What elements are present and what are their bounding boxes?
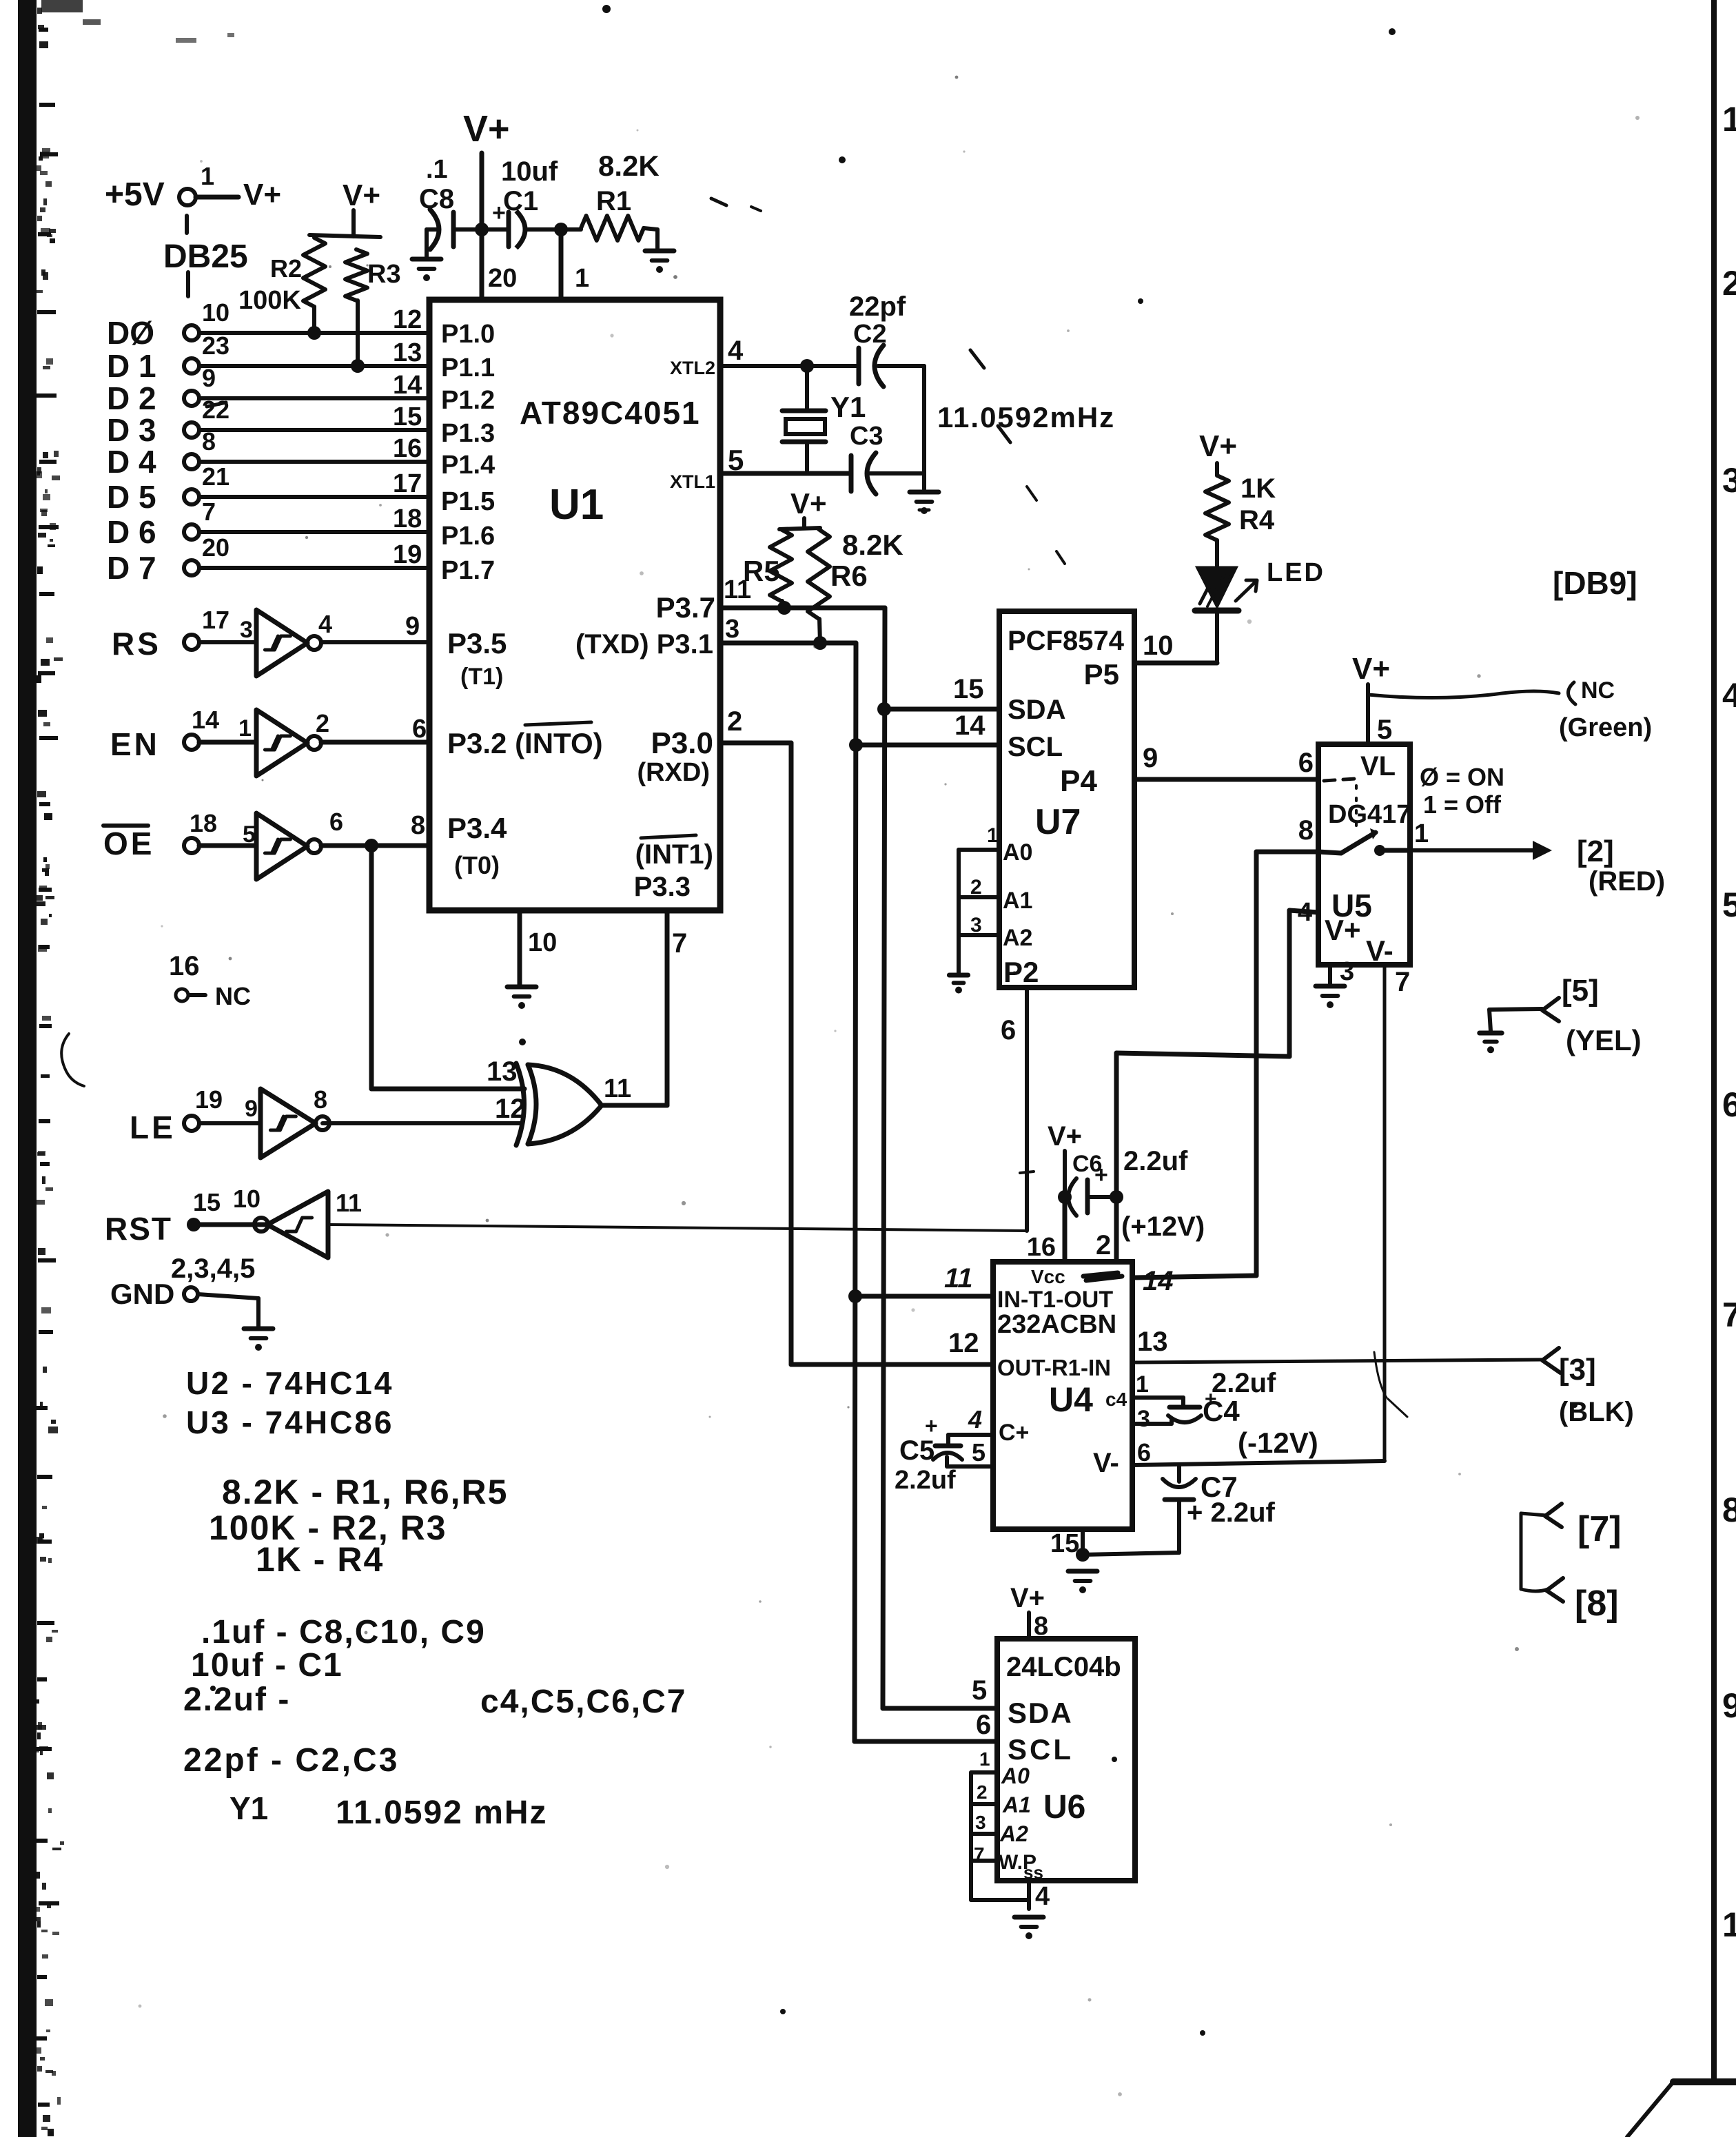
- svg-text:C2: C2: [853, 320, 887, 349]
- wire NC (Green): [1368, 691, 1559, 698]
- svg-text:19: 19: [393, 540, 422, 569]
- wire: [199, 1121, 261, 1125]
- inverter U2b (EN): [256, 710, 307, 776]
- svg-text:4: 4: [318, 610, 332, 638]
- svg-text:3: 3: [1340, 957, 1354, 986]
- svg-text:P3.7: P3.7: [656, 591, 715, 624]
- node D1/R3 junction: [351, 359, 365, 373]
- svg-text:LE: LE: [130, 1110, 176, 1145]
- svg-text:D 2: D 2: [107, 380, 156, 416]
- svg-text:EN: EN: [110, 726, 160, 762]
- svg-text:A2: A2: [1003, 925, 1032, 951]
- node R5/P3.7: [777, 601, 791, 615]
- svg-text:A1: A1: [1002, 1792, 1031, 1817]
- svg-text:D 7: D 7: [107, 550, 156, 586]
- svg-text:6: 6: [1137, 1438, 1151, 1466]
- svg-text:1: 1: [575, 264, 589, 293]
- svg-text:3: 3: [725, 615, 739, 644]
- svg-text:(BLK): (BLK): [1559, 1397, 1634, 1427]
- node V+/pin20: [475, 223, 489, 236]
- svg-text:232ACBN: 232ACBN: [997, 1310, 1116, 1339]
- svg-text:(RXD): (RXD): [637, 758, 710, 787]
- svg-text:14: 14: [393, 371, 422, 400]
- svg-text:+5V: +5V: [105, 176, 165, 213]
- svg-text:XTL1: XTL1: [670, 471, 715, 492]
- wire: [199, 640, 256, 644]
- svg-text:C5: C5: [899, 1435, 935, 1466]
- svg-text:6: 6: [1722, 1085, 1736, 1124]
- ground (C8): [412, 257, 441, 262]
- wire rail: [453, 227, 508, 232]
- svg-text:3: 3: [240, 617, 253, 643]
- svg-text:DB25: DB25: [163, 238, 248, 275]
- svg-text:C1: C1: [503, 186, 538, 216]
- wire: [199, 396, 429, 400]
- wire U4 pin14 to U5 pin8: [1132, 1276, 1256, 1278]
- ground (R1): [645, 249, 674, 254]
- svg-text:P1.3: P1.3: [441, 419, 495, 448]
- svg-text:R4: R4: [1239, 505, 1275, 535]
- svg-text:11.0592mHz: 11.0592mHz: [937, 401, 1115, 433]
- wire SCL to U6 pin6: [855, 1739, 997, 1744]
- svg-text:(T1): (T1): [460, 664, 503, 690]
- svg-text:8: 8: [411, 811, 425, 840]
- svg-text:V+: V+: [1352, 652, 1390, 686]
- svg-text:P3.2 (INTO): P3.2 (INTO): [447, 727, 603, 759]
- svg-text:15: 15: [953, 674, 984, 704]
- wire OE to XOR pin13: [369, 846, 374, 1089]
- dashed control line: [1324, 779, 1355, 781]
- node D0/R2 junction: [307, 326, 321, 340]
- svg-text:2: 2: [727, 706, 742, 737]
- svg-text:P1.1: P1.1: [441, 354, 495, 382]
- svg-text:5: 5: [243, 821, 256, 848]
- svg-text:4: 4: [1722, 676, 1736, 715]
- svg-text:V+: V+: [1325, 914, 1361, 946]
- svg-text:3: 3: [975, 1812, 986, 1833]
- svg-text:D 6: D 6: [107, 514, 156, 550]
- svg-text:1K: 1K: [1240, 473, 1276, 504]
- svg-text:18: 18: [190, 809, 217, 837]
- svg-text:15: 15: [193, 1188, 221, 1216]
- svg-text:100K: 100K: [238, 286, 301, 315]
- svg-text:4: 4: [1035, 1882, 1050, 1911]
- resistor R2 100K: [309, 235, 380, 237]
- svg-text:23: 23: [202, 331, 229, 360]
- IC U5 DG417 box: [1318, 744, 1410, 965]
- svg-text:17: 17: [202, 606, 229, 634]
- wire to XOR pin12: [323, 1121, 520, 1125]
- stray marks: [839, 156, 846, 163]
- svg-text:9: 9: [1722, 1686, 1736, 1725]
- inverter U2e (RST, faces left): [267, 1192, 328, 1258]
- svg-text:D 5: D 5: [107, 479, 156, 515]
- svg-text:A0: A0: [1001, 1763, 1030, 1788]
- svg-text:R3: R3: [367, 260, 401, 289]
- svg-text:V+: V+: [790, 487, 827, 520]
- svg-text:7: 7: [1395, 967, 1410, 997]
- svg-text:(TXD) P3.1: (TXD) P3.1: [575, 629, 713, 659]
- svg-text:V+: V+: [1199, 429, 1237, 463]
- svg-text:8: 8: [202, 427, 216, 456]
- node R6/P3.1: [813, 636, 827, 650]
- ground (U6 pin4): [1027, 1881, 1031, 1909]
- svg-text:V-: V-: [1366, 934, 1393, 967]
- ground (C2/C3): [910, 490, 939, 495]
- svg-text:1: 1: [1414, 819, 1429, 848]
- svg-text:U4: U4: [1049, 1380, 1093, 1419]
- node SDA branch: [877, 702, 891, 716]
- wire XOR out to U1 pin7: [602, 1103, 667, 1108]
- wire SDA to U7 pin15: [884, 707, 999, 712]
- svg-text:(INT1): (INT1): [635, 839, 713, 870]
- svg-text:V+: V+: [343, 178, 380, 212]
- svg-text:P5: P5: [1084, 658, 1119, 691]
- svg-text:1: 1: [1722, 1905, 1736, 1944]
- svg-text:U3 - 74HC86: U3 - 74HC86: [186, 1404, 394, 1440]
- svg-text:5: 5: [1722, 886, 1736, 924]
- svg-text:SDA: SDA: [1008, 695, 1065, 725]
- svg-text:P1.7: P1.7: [441, 556, 495, 585]
- svg-text:1: 1: [987, 824, 999, 847]
- svg-text:2: 2: [977, 1781, 988, 1803]
- svg-text:[2]: [2]: [1577, 835, 1614, 868]
- svg-text:2.2uf: 2.2uf: [895, 1466, 956, 1495]
- svg-text:5: 5: [1377, 715, 1392, 745]
- svg-text:DG417: DG417: [1328, 800, 1411, 829]
- svg-text:8.2K: 8.2K: [842, 529, 903, 561]
- svg-text:22pf - C2,C3: 22pf - C2,C3: [183, 1742, 399, 1779]
- node SCL branch U7: [849, 738, 863, 752]
- wire: [199, 740, 256, 745]
- svg-text:Vcc: Vcc: [1031, 1266, 1065, 1287]
- svg-text:D 4: D 4: [107, 444, 156, 480]
- svg-text:P3.3: P3.3: [634, 872, 691, 902]
- svg-text:C+: C+: [999, 1420, 1029, 1446]
- svg-text:(+12V): (+12V): [1121, 1211, 1205, 1242]
- svg-text:V-: V-: [1093, 1448, 1119, 1478]
- svg-text:DØ: DØ: [107, 315, 154, 351]
- svg-text:2.2uf -: 2.2uf -: [183, 1681, 290, 1718]
- svg-text:IN-T1-OUT: IN-T1-OUT: [997, 1287, 1113, 1313]
- wire: [199, 428, 429, 432]
- svg-text:10uf - C1: 10uf - C1: [191, 1647, 343, 1684]
- svg-text:10: 10: [233, 1185, 261, 1213]
- svg-text:1: 1: [238, 715, 252, 742]
- svg-text:20: 20: [202, 533, 229, 562]
- svg-text:6: 6: [976, 1710, 991, 1740]
- svg-text:P2: P2: [1003, 956, 1039, 988]
- svg-text:Ø = ON: Ø = ON: [1420, 763, 1504, 791]
- svg-text:18: 18: [393, 504, 422, 533]
- wire C6 to +12V: [1087, 1195, 1116, 1199]
- IC U6 24LC04B box: [997, 1639, 1135, 1881]
- svg-text:V+: V+: [243, 178, 281, 212]
- svg-text:P1.4: P1.4: [441, 451, 495, 480]
- svg-text:16: 16: [393, 434, 422, 463]
- svg-text:14: 14: [1143, 1266, 1174, 1296]
- ground (U7 addr): [949, 973, 968, 978]
- svg-text:.1uf - C8,C10, C9: .1uf - C8,C10, C9: [201, 1614, 486, 1650]
- svg-text:2,3,4,5: 2,3,4,5: [171, 1254, 255, 1284]
- wire: [870, 471, 924, 476]
- svg-text:8: 8: [1722, 1491, 1736, 1529]
- svg-text:10: 10: [528, 928, 557, 957]
- svg-text:P3.0: P3.0: [651, 726, 713, 760]
- svg-text:NC: NC: [215, 982, 251, 1010]
- svg-text:SCL: SCL: [1008, 1733, 1074, 1766]
- resistor R6 8.2K: [808, 529, 830, 619]
- svg-text:AT89C4051: AT89C4051: [520, 395, 701, 431]
- svg-text:P1.0: P1.0: [441, 320, 495, 349]
- node OE junction: [365, 839, 378, 852]
- wire: [199, 566, 429, 570]
- svg-text:8.2K: 8.2K: [598, 150, 660, 182]
- svg-text:V+: V+: [463, 108, 510, 150]
- wire SDA to U6 pin5: [883, 1706, 997, 1711]
- svg-text:OUT-R1-IN: OUT-R1-IN: [997, 1355, 1111, 1380]
- svg-text:1 = Off: 1 = Off: [1423, 790, 1502, 819]
- svg-text:VL: VL: [1360, 751, 1396, 781]
- svg-text:A0: A0: [1003, 839, 1032, 866]
- wire to U1 pin8: [321, 843, 429, 848]
- svg-text:12: 12: [393, 305, 422, 334]
- svg-text:LED: LED: [1267, 558, 1325, 587]
- svg-text:11: 11: [336, 1189, 362, 1217]
- svg-text:14: 14: [192, 706, 219, 734]
- svg-text:13: 13: [1137, 1327, 1168, 1357]
- stray dashed marks: [711, 198, 726, 205]
- svg-text:Y1: Y1: [229, 1790, 268, 1826]
- svg-text:+: +: [1094, 1162, 1108, 1188]
- capacitor C8 .1uf: [427, 227, 437, 232]
- node T1IN branch U4: [848, 1289, 862, 1303]
- svg-text:[5]: [5]: [1562, 974, 1599, 1008]
- wire: [199, 495, 429, 499]
- svg-text:6: 6: [329, 808, 343, 836]
- svg-text:5: 5: [972, 1675, 987, 1706]
- svg-text:OE: OE: [103, 826, 154, 861]
- svg-text:D 3: D 3: [107, 412, 156, 448]
- svg-text:SCL: SCL: [1008, 732, 1063, 762]
- svg-text:P3.5: P3.5: [447, 627, 507, 659]
- svg-text:22pf: 22pf: [849, 292, 906, 322]
- ground (GND pin): [244, 1327, 273, 1331]
- resistor R5 8.2K: [770, 529, 792, 601]
- svg-text:V+: V+: [1048, 1121, 1082, 1152]
- svg-text:U1: U1: [549, 481, 604, 529]
- svg-text:1K - R4: 1K - R4: [256, 1540, 384, 1579]
- svg-text:P4: P4: [1060, 764, 1097, 798]
- svg-text:13: 13: [487, 1056, 518, 1087]
- svg-text:10uf: 10uf: [501, 156, 558, 187]
- wire to U1 pin9: [321, 640, 429, 644]
- svg-text:9: 9: [202, 364, 216, 392]
- svg-text:C3: C3: [850, 422, 884, 451]
- svg-text:P3.4: P3.4: [447, 812, 507, 844]
- svg-text:c4: c4: [1105, 1389, 1127, 1410]
- svg-text:10: 10: [202, 298, 229, 327]
- wire SCL to U7 pin14: [856, 743, 999, 748]
- svg-text:9: 9: [405, 612, 420, 641]
- svg-text:+ 2.2uf: + 2.2uf: [1187, 1497, 1276, 1528]
- svg-text:P1.2: P1.2: [441, 386, 495, 415]
- svg-text:11: 11: [604, 1074, 631, 1103]
- svg-text:R2: R2: [270, 254, 302, 283]
- IC U1 AT89C4051 box: [429, 300, 720, 910]
- svg-text:2.2uf: 2.2uf: [1123, 1146, 1188, 1176]
- ground (U1 pin10): [518, 911, 522, 985]
- svg-text:2: 2: [1722, 264, 1736, 303]
- wire: [528, 227, 581, 232]
- svg-text:24LC04b: 24LC04b: [1006, 1652, 1121, 1682]
- svg-text:D 1: D 1: [107, 348, 156, 384]
- svg-text:RS: RS: [112, 626, 161, 662]
- wire to U1 pin6: [321, 740, 429, 745]
- inverter U2d (LE): [261, 1089, 316, 1158]
- svg-text:8: 8: [314, 1085, 327, 1114]
- wire [2] RED out: [1410, 848, 1545, 852]
- resistor R4 1K: [1205, 476, 1229, 540]
- node xtl2/Y1: [800, 359, 814, 373]
- wire: [198, 1294, 258, 1298]
- svg-text:GND: GND: [110, 1278, 174, 1310]
- svg-text:A2: A2: [999, 1821, 1028, 1846]
- svg-text:9: 9: [1143, 743, 1158, 773]
- svg-text:2.2uf: 2.2uf: [1212, 1368, 1276, 1398]
- IC U4 232ACBN box: [993, 1262, 1132, 1529]
- svg-text:(YEL): (YEL): [1566, 1024, 1642, 1056]
- svg-text:P1.6: P1.6: [441, 522, 495, 551]
- IC U7 PCF8574 box: [999, 611, 1134, 988]
- svg-text:12: 12: [948, 1328, 979, 1358]
- svg-text:[3]: [3]: [1559, 1353, 1596, 1387]
- svg-text:R6: R6: [830, 560, 868, 592]
- svg-text:SDA: SDA: [1008, 1697, 1073, 1729]
- inverter U2c (OE): [256, 813, 307, 879]
- node pin1/R1: [554, 223, 568, 236]
- wire: [200, 1223, 267, 1227]
- svg-text:11: 11: [944, 1263, 973, 1294]
- svg-text:1: 1: [979, 1748, 990, 1770]
- wire: [878, 364, 924, 368]
- svg-text:[7]: [7]: [1577, 1509, 1622, 1549]
- svg-text:(Green): (Green): [1559, 713, 1652, 742]
- connector [7]/[8] bracket: [1520, 1513, 1523, 1589]
- svg-text:16: 16: [1027, 1233, 1056, 1262]
- svg-text:[8]: [8]: [1575, 1584, 1619, 1624]
- svg-text:RST: RST: [105, 1211, 172, 1247]
- wire: [199, 331, 429, 335]
- svg-text:8.2K - R1, R6,R5: 8.2K - R1, R6,R5: [222, 1473, 508, 1511]
- svg-text:7: 7: [202, 498, 216, 526]
- svg-text:6: 6: [1001, 1015, 1016, 1045]
- svg-text:1: 1: [1136, 1371, 1149, 1398]
- capacitor C2 22pf: [857, 348, 861, 384]
- svg-text:6: 6: [1298, 748, 1314, 778]
- page corner diagonal: [1627, 2082, 1673, 2137]
- scan noise left edge: [18, 0, 37, 2137]
- svg-text:4: 4: [728, 336, 744, 366]
- svg-text:Y1: Y1: [830, 391, 866, 423]
- page specks: [610, 334, 613, 337]
- wire: [199, 843, 256, 848]
- svg-text:3: 3: [1722, 461, 1736, 500]
- svg-text:C4: C4: [1203, 1395, 1240, 1427]
- wire to U4 pin11: [855, 1294, 993, 1299]
- svg-text:(T0): (T0): [454, 851, 500, 879]
- svg-text:NC: NC: [1581, 677, 1615, 704]
- svg-text:c4,C5,C6,C7: c4,C5,C6,C7: [480, 1684, 686, 1720]
- wire: [199, 460, 429, 464]
- svg-text:R1: R1: [596, 186, 631, 216]
- svg-text:15: 15: [1050, 1529, 1079, 1558]
- svg-text:22: 22: [202, 396, 229, 424]
- resistor R3 100K: [345, 249, 367, 300]
- svg-text:20: 20: [488, 264, 517, 293]
- svg-text:9: 9: [245, 1096, 258, 1122]
- svg-text:A1: A1: [1003, 888, 1032, 914]
- wire U7 P5 to LED: [1134, 661, 1217, 666]
- crystal Y1: [805, 366, 809, 410]
- wire: [199, 530, 429, 534]
- svg-text:17: 17: [393, 469, 422, 498]
- svg-text:(-12V): (-12V): [1238, 1427, 1318, 1459]
- svg-text:8: 8: [1298, 815, 1314, 846]
- wire U5 pin8 to U4 pin14: [1256, 850, 1318, 855]
- svg-text:ss: ss: [1023, 1862, 1043, 1883]
- svg-text:4: 4: [968, 1405, 982, 1433]
- svg-text:XTL2: XTL2: [670, 358, 715, 378]
- svg-text:7: 7: [672, 928, 687, 959]
- svg-text:V+: V+: [1010, 1583, 1045, 1613]
- svg-text:+: +: [925, 1413, 938, 1438]
- svg-text:15: 15: [393, 402, 422, 431]
- node C6 left: [1058, 1190, 1072, 1204]
- svg-text:7: 7: [1722, 1296, 1736, 1334]
- svg-text:U6: U6: [1043, 1789, 1085, 1826]
- svg-text:U7: U7: [1035, 802, 1081, 842]
- svg-text:P1.5: P1.5: [441, 487, 495, 516]
- svg-text:2: 2: [1096, 1230, 1111, 1260]
- svg-text:16: 16: [169, 951, 200, 981]
- svg-text:[DB9]: [DB9]: [1553, 565, 1637, 601]
- svg-text:14: 14: [954, 710, 986, 741]
- svg-text:5: 5: [972, 1438, 986, 1466]
- svg-text:.1: .1: [426, 155, 448, 184]
- node +12V: [1110, 1190, 1123, 1204]
- wire RST line to U7 P2: [328, 1225, 1027, 1231]
- svg-text:11.0592 mHz: 11.0592 mHz: [336, 1795, 548, 1831]
- svg-text:PCF8574: PCF8574: [1008, 626, 1125, 656]
- capacitor C7 2.2uf: [1177, 1465, 1181, 1482]
- svg-text:21: 21: [202, 462, 229, 491]
- svg-text:10: 10: [1143, 631, 1174, 661]
- wire U1 pin1: [559, 229, 564, 299]
- svg-text:11: 11: [724, 575, 751, 604]
- wire U5 V+ pin4 to +12V: [1289, 910, 1318, 912]
- svg-text:13: 13: [393, 338, 422, 367]
- svg-text:2: 2: [316, 709, 329, 737]
- capacitor C3 22pf: [849, 456, 854, 491]
- wire U7 P4 to U5 pin6: [1134, 777, 1318, 782]
- svg-text:19: 19: [195, 1085, 223, 1114]
- svg-text:U2 - 74HC14: U2 - 74HC14: [186, 1365, 394, 1401]
- svg-text:1: 1: [201, 162, 214, 190]
- svg-text:C8: C8: [419, 184, 454, 214]
- svg-text:6: 6: [412, 715, 427, 744]
- svg-text:3: 3: [1137, 1406, 1150, 1432]
